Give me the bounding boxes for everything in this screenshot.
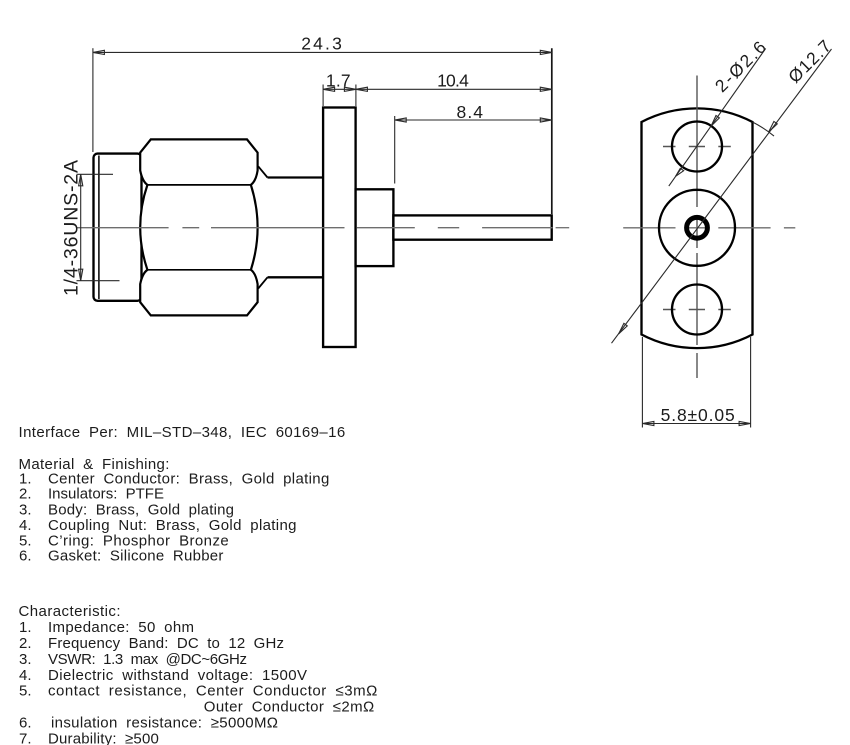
dimension 24.3 [93, 48, 552, 214]
center contact ring [687, 217, 708, 238]
svg-text:Impedance: 50 ohm: Impedance: 50 ohm [48, 619, 194, 636]
body cylinder top line [268, 176, 324, 178]
svg-text:Dielectric withstand voltage:: Dielectric withstand voltage: 1500V [48, 667, 307, 684]
center pin [393, 215, 551, 239]
transition hex to body bottom [258, 277, 267, 288]
svg-text:Outer Conductor ≤2mΩ: Outer Conductor ≤2mΩ [204, 699, 374, 716]
right view flange outline [642, 108, 753, 348]
right view vertical centerline [696, 76, 698, 379]
notes block 1 [19, 424, 346, 565]
svg-text:6.: 6. [19, 548, 32, 565]
svg-text:1/4-36UNS-2A: 1/4-36UNS-2A [61, 160, 83, 296]
top hole centerline horizontal [663, 146, 732, 148]
svg-text:2.: 2. [19, 635, 32, 652]
bottom hole centerline horizontal [663, 309, 732, 311]
svg-text:24.3: 24.3 [301, 33, 342, 53]
svg-text:7.: 7. [19, 730, 32, 745]
svg-text:contact resistance, Center Co: contact resistance, Center Conductor ≤3m… [48, 683, 377, 700]
svg-text:Coupling Nut: Brass, Gold plat: Coupling Nut: Brass, Gold plating [48, 517, 297, 534]
svg-text:5.8±0.05: 5.8±0.05 [661, 405, 735, 425]
svg-text:Insulators: PTFE: Insulators: PTFE [48, 486, 164, 503]
svg-text:1.: 1. [19, 619, 32, 636]
svg-text:3.: 3. [19, 651, 32, 668]
bottom mounting hole [672, 285, 722, 335]
svg-text:Durability: ≥500: Durability: ≥500 [48, 730, 159, 745]
body cylinder bottom line [268, 276, 324, 278]
svg-text:Gasket: Silicone Rubber: Gasket: Silicone Rubber [48, 548, 223, 565]
svg-text:5.: 5. [19, 683, 32, 700]
svg-text:2.: 2. [19, 486, 32, 503]
dimension 8.4 [395, 116, 552, 184]
svg-text:6.: 6. [19, 715, 32, 732]
svg-text:insulation resistance: ≥5000MΩ: insulation resistance: ≥5000MΩ [51, 715, 278, 732]
hex facet line upper [147, 184, 251, 186]
thread callout dimension [77, 174, 120, 280]
leader Ø12.7 [612, 49, 832, 343]
flange side view plate [323, 108, 356, 348]
svg-text:4.: 4. [19, 667, 32, 684]
leader 2-Ø2.6 [669, 48, 766, 186]
svg-text:Frequency Band: DC to 12 GHz: Frequency Band: DC to 12 GHz [48, 635, 284, 652]
dimension 1.7 [323, 85, 356, 107]
svg-text:3.: 3. [19, 501, 32, 518]
hex facet line lower [147, 269, 251, 271]
coupling nut thread end ring [94, 154, 142, 301]
top mounting hole [672, 122, 722, 172]
interface circle [659, 190, 735, 266]
transition hex to body top [258, 166, 267, 177]
thread chamfer line [98, 156, 100, 300]
svg-text:Body: Brass, Gold plating: Body: Brass, Gold plating [48, 501, 234, 518]
svg-text:Interface Per: MIL–STD–348, IE: Interface Per: MIL–STD–348, IEC 60169–16 [19, 424, 346, 441]
svg-text:4.: 4. [19, 517, 32, 534]
svg-text:Characteristic:: Characteristic: [19, 603, 121, 620]
hex coupling nut outline [140, 139, 257, 315]
svg-text:1.7: 1.7 [326, 71, 351, 91]
centerline left view [77, 227, 569, 229]
svg-text:8.4: 8.4 [457, 102, 484, 122]
notes block 2 [19, 603, 378, 745]
middle centerline horizontal [623, 227, 795, 229]
post behind flange [356, 189, 394, 266]
svg-text:10.4: 10.4 [437, 71, 469, 91]
svg-text:VSWR: 1.3 max @DC~6GHz: VSWR: 1.3 max @DC~6GHz [48, 651, 247, 668]
dimension 10.4 [356, 87, 552, 91]
dimension 5.8±0.05 [642, 337, 750, 428]
